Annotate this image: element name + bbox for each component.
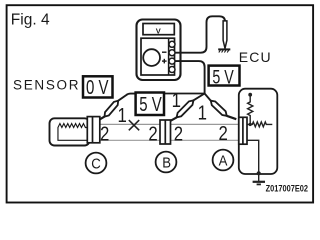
frame border [7, 5, 314, 202]
meter panel [141, 38, 175, 75]
meter minus terminal label [162, 51, 167, 53]
probe P3 touching connector A pin 1 [209, 99, 228, 118]
resistor R1 inside sensor (between pin 1 and pin 2) [58, 124, 88, 141]
connector C [87, 117, 100, 143]
svg-text:Fig. 4: Fig. 4 [11, 12, 50, 29]
wire: negative lead up and over to ground probe P4 [175, 16, 226, 52]
svg-text:1: 1 [118, 104, 127, 127]
probe P2 touching connector B pin 1 [175, 99, 195, 120]
node C (circled connector label) [86, 153, 107, 174]
wire: net 2 harness segment C to B [99, 139, 161, 141]
resistor R2 (ECU 5V pull-up, vertical) with wire from terminal 1 [247, 96, 253, 124]
node A (circled connector label) [213, 150, 234, 171]
svg-text:0 V: 0 V [86, 76, 109, 99]
meter display [143, 24, 174, 35]
node B (circled connector label) [156, 152, 177, 173]
svg-text:2: 2 [219, 122, 228, 145]
node VC supply dot [248, 93, 252, 97]
sensor S1 body [50, 118, 90, 145]
ground symbol (ECU internal ground) [253, 181, 265, 183]
junction dot node J2 on ECU case edge [257, 171, 261, 175]
wire: tent node branch to probe P3 [205, 94, 211, 101]
svg-text:B: B [162, 154, 171, 171]
multimeter U1 [137, 20, 181, 81]
svg-text:V: V [156, 27, 161, 36]
svg-text:A: A [219, 152, 228, 169]
connector A [239, 117, 247, 144]
wire: tent node branch to probe P2 [194, 94, 205, 101]
wire: 5V value box to tent node [164, 93, 205, 95]
svg-text:2: 2 [100, 122, 109, 145]
wire: probe P1 to 5V value box [118, 94, 136, 101]
svg-text:2: 2 [148, 122, 157, 145]
value label box 0 V (sensor reading) [83, 76, 113, 97]
ECU box [239, 89, 277, 174]
wire: ECU terminal 2 to ground [247, 140, 259, 181]
value label box 5 V (at connector C probe) [136, 93, 164, 116]
probe P4 (to body ground) [223, 21, 227, 48]
value label box 5 V (at connectors B and A) [209, 66, 240, 86]
svg-text:2: 2 [174, 122, 183, 145]
resistor R3 (ECU internal, horizontal) [250, 122, 272, 127]
svg-text:1: 1 [198, 101, 207, 124]
svg-text:SENSOR: SENSOR [13, 77, 80, 92]
wire: net 2 harness segment B to A [170, 139, 240, 141]
meter plus terminal label [162, 59, 167, 64]
wire: positive lead down to tent node [175, 61, 205, 93]
meter jack column divider [168, 38, 170, 75]
connector B [160, 120, 171, 144]
open-circuit X mark on wire 1 [129, 120, 139, 130]
svg-text:C: C [91, 154, 101, 171]
svg-text:Z017007E02: Z017007E02 [266, 183, 309, 194]
wire: net 1 harness segment B to A [170, 123, 240, 125]
meter jacks [169, 41, 175, 72]
svg-text:ECU: ECU [239, 49, 272, 65]
junction dot node J1 [249, 123, 252, 126]
svg-text:5 V: 5 V [139, 93, 162, 116]
svg-text:5 V: 5 V [212, 66, 234, 87]
wire: net 1 harness segment C to B [99, 123, 161, 125]
ground symbol (body ground at probe tip) [218, 48, 230, 50]
meter dial [143, 49, 160, 66]
svg-text:1: 1 [172, 89, 181, 112]
probe P1 touching connector C pin 1 [103, 99, 120, 118]
